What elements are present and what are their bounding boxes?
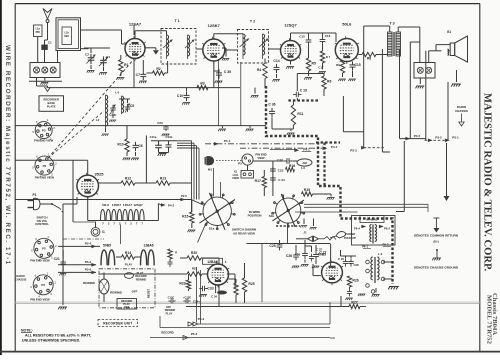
svg-text:C11b: C11b: [166, 135, 173, 139]
svg-text:C 36: C 36: [268, 103, 275, 107]
svg-text:L4: L4: [115, 91, 119, 95]
svg-text:R16: R16: [289, 164, 295, 168]
svg-text:12SK7: 12SK7: [208, 23, 221, 28]
svg-text:R21: R21: [192, 267, 198, 271]
svg-text:REWIND: REWIND: [83, 281, 95, 285]
svg-text:C 29: C 29: [338, 257, 344, 261]
svg-text:R26: R26: [352, 279, 358, 283]
svg-text:R 7: R 7: [326, 55, 331, 59]
svg-text:P1: P1: [33, 193, 37, 197]
svg-text:R4: R4: [257, 68, 261, 72]
svg-text:P2-5: P2-5: [181, 194, 187, 198]
svg-text:P3-2: P3-2: [435, 135, 442, 139]
svg-text:12BA6: 12BA6: [143, 243, 153, 247]
svg-text:12SA7: 12SA7: [123, 203, 133, 207]
svg-text:50B5: 50B5: [318, 253, 326, 257]
svg-text:C2: C2: [85, 53, 89, 57]
svg-text:12SA7: 12SA7: [129, 22, 142, 27]
svg-text:REWIND: REWIND: [136, 277, 147, 281]
svg-text:C1: C1: [48, 41, 52, 45]
svg-text:L2: L2: [96, 118, 100, 122]
svg-text:1.0: 1.0: [301, 166, 305, 170]
svg-text:R8: R8: [367, 56, 371, 60]
svg-text:P3-6: P3-6: [85, 268, 92, 272]
svg-text:SEC: SEC: [64, 35, 69, 38]
svg-text:C5: C5: [130, 104, 134, 108]
svg-text:VIEW: VIEW: [232, 176, 239, 180]
svg-text:MAJESTIC RADIO & TELEV. CORP.: MAJESTIC RADIO & TELEV. CORP.: [482, 93, 493, 272]
svg-text:PLAY: PLAY: [166, 311, 173, 315]
svg-text:R6: R6: [327, 80, 331, 84]
svg-text:I1: I1: [102, 230, 105, 234]
svg-text:R27: R27: [351, 301, 357, 305]
svg-text:S1a: S1a: [209, 227, 215, 231]
svg-text:R10: R10: [117, 143, 123, 147]
svg-text:P4-1: P4-1: [303, 147, 310, 151]
svg-text:12SQ7: 12SQ7: [284, 23, 297, 28]
svg-text:R12: R12: [125, 177, 131, 181]
svg-text:C28: C28: [354, 263, 359, 267]
svg-text:UNLESS OTHERWISE SPECIFIED.: UNLESS OTHERWISE SPECIFIED.: [22, 339, 80, 343]
svg-text:R20: R20: [191, 251, 197, 255]
svg-text:50B5: 50B5: [103, 243, 111, 247]
svg-text:C36+: C36+: [193, 300, 201, 304]
svg-text:R11: R11: [297, 112, 303, 116]
svg-text:S1b: S1b: [269, 214, 275, 218]
svg-text:C4: C4: [106, 55, 110, 59]
svg-text:AM: AM: [302, 161, 307, 165]
svg-text:PIN END VIEW: PIN END VIEW: [30, 298, 50, 302]
svg-text:P3-3: P3-3: [350, 149, 357, 153]
svg-text:C20: C20: [157, 121, 163, 125]
svg-text:G1: G1: [447, 30, 451, 34]
svg-text:ALL RESISTORS TO BE ±20%: ALL RESISTORS TO BE ±20% ½ WATT,: [25, 334, 91, 338]
svg-text:P6-2: P6-2: [384, 227, 390, 231]
svg-text:P3: P3: [42, 128, 46, 132]
svg-text:P3-4: P3-4: [85, 242, 92, 246]
svg-text:CHASSIS: CHASSIS: [455, 109, 468, 113]
svg-text:P6-4: P6-4: [354, 227, 360, 231]
svg-text:Chassis 7B04A: Chassis 7B04A: [491, 293, 498, 335]
svg-text:12BA6: 12BA6: [207, 260, 218, 264]
svg-text:X1: X1: [234, 170, 238, 174]
svg-text:C 19: C 19: [300, 89, 307, 93]
svg-text:M HEAD: M HEAD: [366, 218, 377, 222]
svg-text:C23: C23: [278, 169, 284, 173]
svg-text:3525: 3525: [95, 172, 105, 177]
svg-text:VIEW: VIEW: [257, 156, 265, 160]
svg-text:CHASSIS: CHASSIS: [15, 277, 27, 281]
svg-text:T 2: T 2: [250, 20, 255, 24]
svg-text:PLAY: PLAY: [125, 263, 133, 267]
svg-text:P2: P2: [238, 162, 242, 166]
svg-text:C10: C10: [177, 94, 183, 98]
svg-text:P6-1: P6-1: [362, 245, 368, 249]
svg-text:R15: R15: [182, 215, 188, 219]
svg-text:RECORDER UNIT: RECORDER UNIT: [103, 322, 132, 326]
svg-text:R5: R5: [312, 62, 316, 66]
svg-text:+C13E: +C13E: [183, 296, 191, 300]
svg-text:PLATE: PLATE: [47, 105, 56, 109]
svg-text:C 24: C 24: [278, 178, 285, 182]
svg-text:C 34: C 34: [211, 295, 217, 299]
svg-text:P4-2: P4-2: [168, 204, 175, 208]
svg-text:BASE: BASE: [47, 101, 55, 105]
svg-text:DENOTES COMMON RETURN: DENOTES COMMON RETURN: [414, 234, 459, 238]
svg-text:P5: P5: [42, 247, 46, 251]
svg-text:AS REAR VIEW: AS REAR VIEW: [233, 231, 255, 235]
svg-text:P3-3: P3-3: [85, 260, 92, 264]
svg-text:R17: R17: [255, 179, 261, 183]
svg-text:R14: R14: [125, 251, 131, 255]
svg-text:J1: J1: [303, 231, 307, 235]
svg-text:M1: M1: [208, 168, 212, 172]
svg-text:12SK7: 12SK7: [112, 203, 122, 207]
svg-text:PICK-UP: PICK-UP: [344, 236, 356, 240]
svg-text:L 3: L 3: [378, 252, 383, 256]
svg-text:PRI: PRI: [36, 31, 40, 34]
svg-text:R13: R13: [160, 177, 166, 181]
svg-text:R9: R9: [336, 63, 340, 67]
svg-text:RESET: RESET: [147, 288, 151, 298]
svg-text:P4-1: P4-1: [224, 139, 231, 143]
svg-text:P5-2: P5-2: [198, 317, 205, 321]
svg-text:C25: C25: [269, 244, 275, 248]
svg-text:12SQ7: 12SQ7: [133, 203, 143, 207]
svg-text:C15: C15: [299, 35, 305, 39]
svg-text:R22: R22: [179, 282, 185, 286]
svg-text:OFF: OFF: [132, 290, 138, 294]
svg-text:WIRE RECORDER: Majestic 7YR752: WIRE RECORDER: Majestic 7YR752, Wi. REC.…: [4, 45, 11, 266]
svg-text:P3-1: P3-1: [452, 135, 459, 139]
svg-text:P5-3: P5-3: [191, 332, 198, 336]
svg-text:C6: C6: [138, 144, 142, 148]
svg-text:P4-5: P4-5: [414, 134, 421, 138]
svg-text:RADIO: RADIO: [16, 274, 24, 278]
svg-text:OFF: OFF: [124, 305, 130, 309]
svg-text:C7: C7: [136, 73, 140, 77]
svg-text:RECORD: RECORD: [161, 331, 174, 335]
svg-text:R25: R25: [248, 282, 254, 286]
svg-text:50L6: 50L6: [342, 22, 352, 27]
svg-text:R2: R2: [156, 67, 160, 71]
svg-text:REWIND: REWIND: [110, 291, 122, 295]
svg-text:R: R: [175, 251, 177, 255]
svg-text:T 1: T 1: [174, 19, 179, 23]
svg-text:T 3: T 3: [389, 22, 394, 26]
svg-text:C11a: C11a: [150, 135, 157, 139]
svg-text:C26: C26: [286, 254, 292, 258]
svg-text:R3: R3: [200, 81, 204, 85]
svg-text:RECORDER: RECORDER: [44, 98, 59, 102]
svg-text:C 35: C 35: [224, 70, 231, 74]
svg-text:CONTROL: CONTROL: [35, 222, 49, 226]
svg-text:PIN END VIEW: PIN END VIEW: [34, 139, 54, 143]
svg-text:PIN END VIEW: PIN END VIEW: [30, 259, 50, 263]
svg-text:C18: C18: [325, 34, 331, 38]
svg-text:C33: C33: [207, 287, 213, 291]
svg-text:P6-2: P6-2: [383, 243, 389, 247]
svg-text:POSITION: POSITION: [248, 214, 262, 218]
svg-text:C15: C15: [354, 63, 360, 67]
svg-text:C13C: C13C: [168, 296, 175, 300]
svg-text:C17: C17: [318, 66, 324, 70]
svg-text:R19: R19: [304, 188, 310, 192]
svg-text:C21: C21: [54, 257, 60, 261]
svg-text:(B-): (B-): [433, 240, 438, 244]
svg-text:P6: P6: [41, 283, 45, 287]
svg-text:50L6: 50L6: [102, 203, 109, 207]
svg-text:DENOTES CHASSIS GROUND: DENOTES CHASSIS GROUND: [414, 266, 459, 270]
svg-text:P6: P6: [43, 164, 47, 168]
svg-text:P4-4: P4-4: [331, 145, 338, 149]
svg-text:PIN END VIEW: PIN END VIEW: [35, 176, 55, 180]
svg-text:NOTE:-: NOTE:-: [21, 329, 34, 333]
svg-text:C14: C14: [273, 59, 279, 63]
